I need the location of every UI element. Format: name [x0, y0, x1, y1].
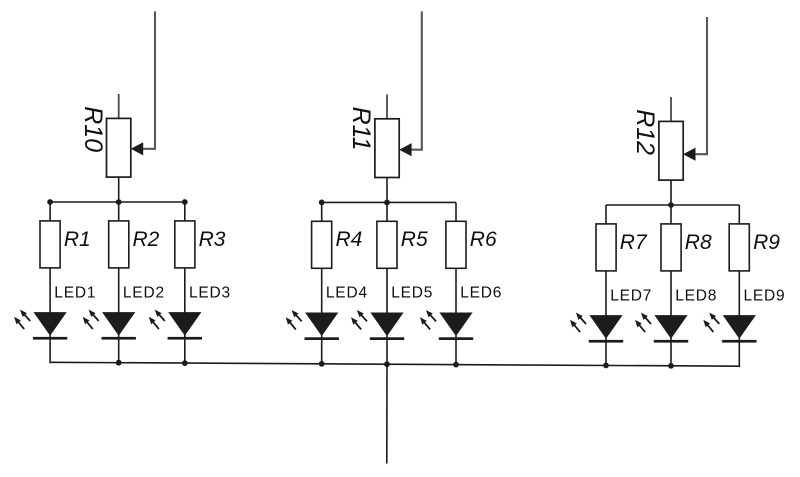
LED LED9 anode triangle	[723, 315, 756, 339]
bus wire resistor group top	[606, 204, 739, 206]
light arrows LED9	[703, 313, 719, 333]
junction	[182, 199, 188, 205]
wire wiper supply line to R12	[690, 17, 707, 154]
LED LED8 cathode bar	[654, 340, 688, 343]
potentiometer R10 body	[107, 118, 131, 177]
resistor R8	[661, 224, 681, 271]
resistor R5	[377, 221, 397, 268]
LED LED3 cathode bar	[168, 337, 202, 340]
LED LED4 anode triangle	[305, 313, 338, 337]
resistor R3	[175, 221, 195, 268]
wire LED to bottom bus	[118, 335, 120, 364]
wire branch	[184, 202, 186, 314]
svg-text:R7: R7	[620, 231, 648, 254]
LED LED1 anode triangle	[34, 312, 67, 336]
junction	[668, 202, 674, 208]
light arrows LED5	[351, 310, 367, 330]
wiper arrow R12	[683, 148, 695, 161]
wire LED to bottom bus	[455, 335, 457, 366]
resistor R4	[312, 221, 332, 268]
svg-text:R8: R8	[685, 231, 712, 254]
svg-text:LED7: LED7	[610, 287, 652, 304]
LED LED5 cathode bar	[370, 337, 404, 340]
wire LED to bottom bus	[321, 335, 323, 365]
light arrows LED1	[14, 310, 30, 330]
wire wiper supply line to R11	[406, 11, 422, 149]
LED LED8 anode triangle	[654, 315, 687, 339]
svg-text:R1: R1	[64, 228, 91, 251]
junction	[319, 200, 325, 206]
resistor R9	[729, 224, 749, 271]
junction bottom bus	[453, 362, 459, 368]
wire branch	[670, 205, 672, 317]
svg-text:LED4: LED4	[326, 285, 368, 302]
LED LED2 anode triangle	[102, 312, 135, 336]
bus wire bottom common	[50, 362, 739, 366]
svg-text:R3: R3	[199, 228, 226, 251]
light arrows LED8	[635, 313, 651, 333]
svg-text:R11: R11	[347, 107, 375, 151]
wire LED to bottom bus	[605, 338, 607, 367]
wire LED to bottom bus	[386, 335, 388, 365]
bus wire resistor group top	[322, 201, 456, 203]
potentiometer R12 body	[659, 121, 683, 180]
resistor R2	[109, 221, 129, 268]
wire LED to bottom bus	[738, 338, 740, 368]
wire branch	[321, 202, 323, 314]
svg-text:R5: R5	[401, 228, 428, 251]
svg-text:R9: R9	[753, 231, 780, 254]
wire branch	[605, 205, 607, 317]
LED LED9 cathode bar	[722, 340, 756, 343]
wire branch	[455, 202, 457, 314]
junction bottom bus	[182, 360, 188, 366]
LED LED5 anode triangle	[370, 313, 403, 337]
wire LED to bottom bus	[184, 335, 186, 364]
wire branch	[738, 205, 740, 317]
LED LED3 anode triangle	[168, 312, 201, 336]
light arrows LED2	[83, 310, 99, 330]
wiper arrow R11	[399, 143, 411, 156]
wire LED to bottom bus	[49, 335, 51, 364]
wire top terminal stub R10	[118, 94, 120, 120]
wire R11 bottom to bus	[386, 177, 388, 203]
wire LED to bottom bus	[670, 338, 672, 367]
wiper arrow R10	[131, 142, 143, 155]
wire R10 bottom to bus	[118, 176, 120, 202]
wire R12 bottom to bus	[670, 179, 672, 205]
junction	[47, 199, 53, 205]
bus wire resistor group top	[50, 201, 185, 203]
wire branch	[118, 202, 120, 314]
svg-text:R6: R6	[470, 228, 497, 251]
wire top terminal stub R11	[386, 94, 388, 120]
svg-text:LED3: LED3	[189, 284, 231, 301]
junction bottom bus	[603, 363, 609, 369]
wire wiper supply line to R10	[138, 11, 155, 148]
junction bottom bus	[668, 363, 674, 369]
svg-text:R12: R12	[631, 109, 659, 155]
LED LED7 cathode bar	[589, 340, 623, 343]
LED LED2 cathode bar	[102, 337, 136, 340]
light arrows LED6	[420, 310, 436, 330]
junction	[116, 199, 122, 205]
LED LED6 anode triangle	[439, 313, 472, 337]
svg-text:LED9: LED9	[744, 287, 786, 304]
LED LED4 cathode bar	[305, 337, 339, 340]
svg-text:LED2: LED2	[123, 284, 165, 301]
wire branch	[49, 202, 51, 314]
light arrows LED4	[286, 310, 302, 330]
wire bottom output	[386, 364, 388, 463]
wire top terminal stub R12	[670, 97, 672, 123]
junction bottom bus	[384, 361, 390, 367]
svg-text:LED8: LED8	[675, 287, 717, 304]
svg-text:R10: R10	[79, 106, 107, 152]
svg-text:R2: R2	[133, 228, 160, 251]
wire branch	[386, 202, 388, 314]
junction bottom bus	[116, 360, 122, 366]
potentiometer R11 body	[375, 119, 399, 178]
svg-text:LED5: LED5	[391, 285, 433, 302]
resistor R7	[596, 224, 616, 271]
LED LED1 cathode bar	[33, 337, 67, 340]
svg-text:LED1: LED1	[54, 284, 96, 301]
resistor R1	[40, 221, 60, 268]
light arrows LED7	[570, 313, 586, 333]
LED LED7 anode triangle	[589, 315, 622, 339]
svg-text:LED6: LED6	[460, 285, 502, 302]
light arrows LED3	[149, 310, 165, 330]
svg-text:R4: R4	[336, 228, 363, 251]
resistor R6	[446, 221, 466, 268]
LED LED6 cathode bar	[439, 337, 473, 340]
junction bottom bus	[319, 361, 325, 367]
junction	[384, 200, 390, 206]
